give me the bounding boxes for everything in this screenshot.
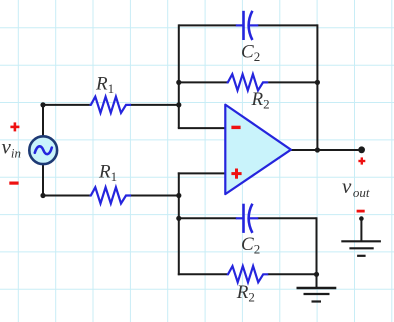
wire C2 bottom branch left [178,217,237,219]
ground G2 under vout [341,241,381,256]
wire non-inverting input [178,172,226,174]
resistor R1 top [90,97,132,113]
wire source bottom stem [42,165,44,197]
ground G1 bottom network [297,288,337,302]
capacitor C2 top [236,11,258,40]
wire R2 bottom branch left lead [178,273,227,275]
wire from R1 bottom to non-inverting node [131,195,180,197]
capacitor C2 bottom [236,204,258,233]
ground G2 stem [360,219,362,242]
junction node at source top [40,102,45,107]
output minus mark [357,210,365,213]
wire C2 bottom branch right [258,217,317,219]
junction node inverting net [176,102,181,107]
wire source top stem [42,104,44,136]
resistor R2 top [227,74,269,90]
output terminal node [358,146,365,153]
wire right vertical of top feedback net [316,24,318,150]
op-amp inverting input mark [231,126,240,129]
output plus mark [358,157,365,164]
wire right vertical of bottom feedback net to ground [316,217,318,288]
junction node R2 bottom right [314,272,319,277]
junction node output feedback [315,147,320,152]
junction node at source bottom [40,193,45,198]
wire from source top node to R1 top [43,104,90,106]
wire R2 top branch right lead [268,81,317,83]
op-amp non-inverting input mark [231,169,241,179]
wire op-amp output [291,149,362,151]
junction node R2 top right [315,80,320,85]
source sine symbol [35,146,52,154]
resistor R1 bottom [90,187,132,203]
wire left vertical of top feedback net [178,24,180,128]
source vin [29,136,57,164]
wire top rail left (C2 top branch, left of capacitor) [179,24,237,26]
wire from source bottom node to R1 bottom [43,195,90,197]
wire left vertical of bottom feedback net [178,172,180,275]
wire R2 top branch left lead [179,81,228,83]
op-amp U1 [225,105,291,195]
wire inverting input [178,127,226,129]
wire R2 bottom branch right lead [268,273,317,275]
source plus mark [10,122,19,131]
source minus mark [9,182,18,185]
wire top rail right (C2 top branch, right of capacitor) [258,24,318,26]
wire from R1 top to inverting node [131,104,180,106]
ground G2 terminal dot [359,216,364,221]
junction node R2 top left [176,80,181,85]
resistor R2 bottom [227,266,268,282]
junction node non-inverting net [176,193,181,198]
junction node C2 bottom left [176,216,181,221]
